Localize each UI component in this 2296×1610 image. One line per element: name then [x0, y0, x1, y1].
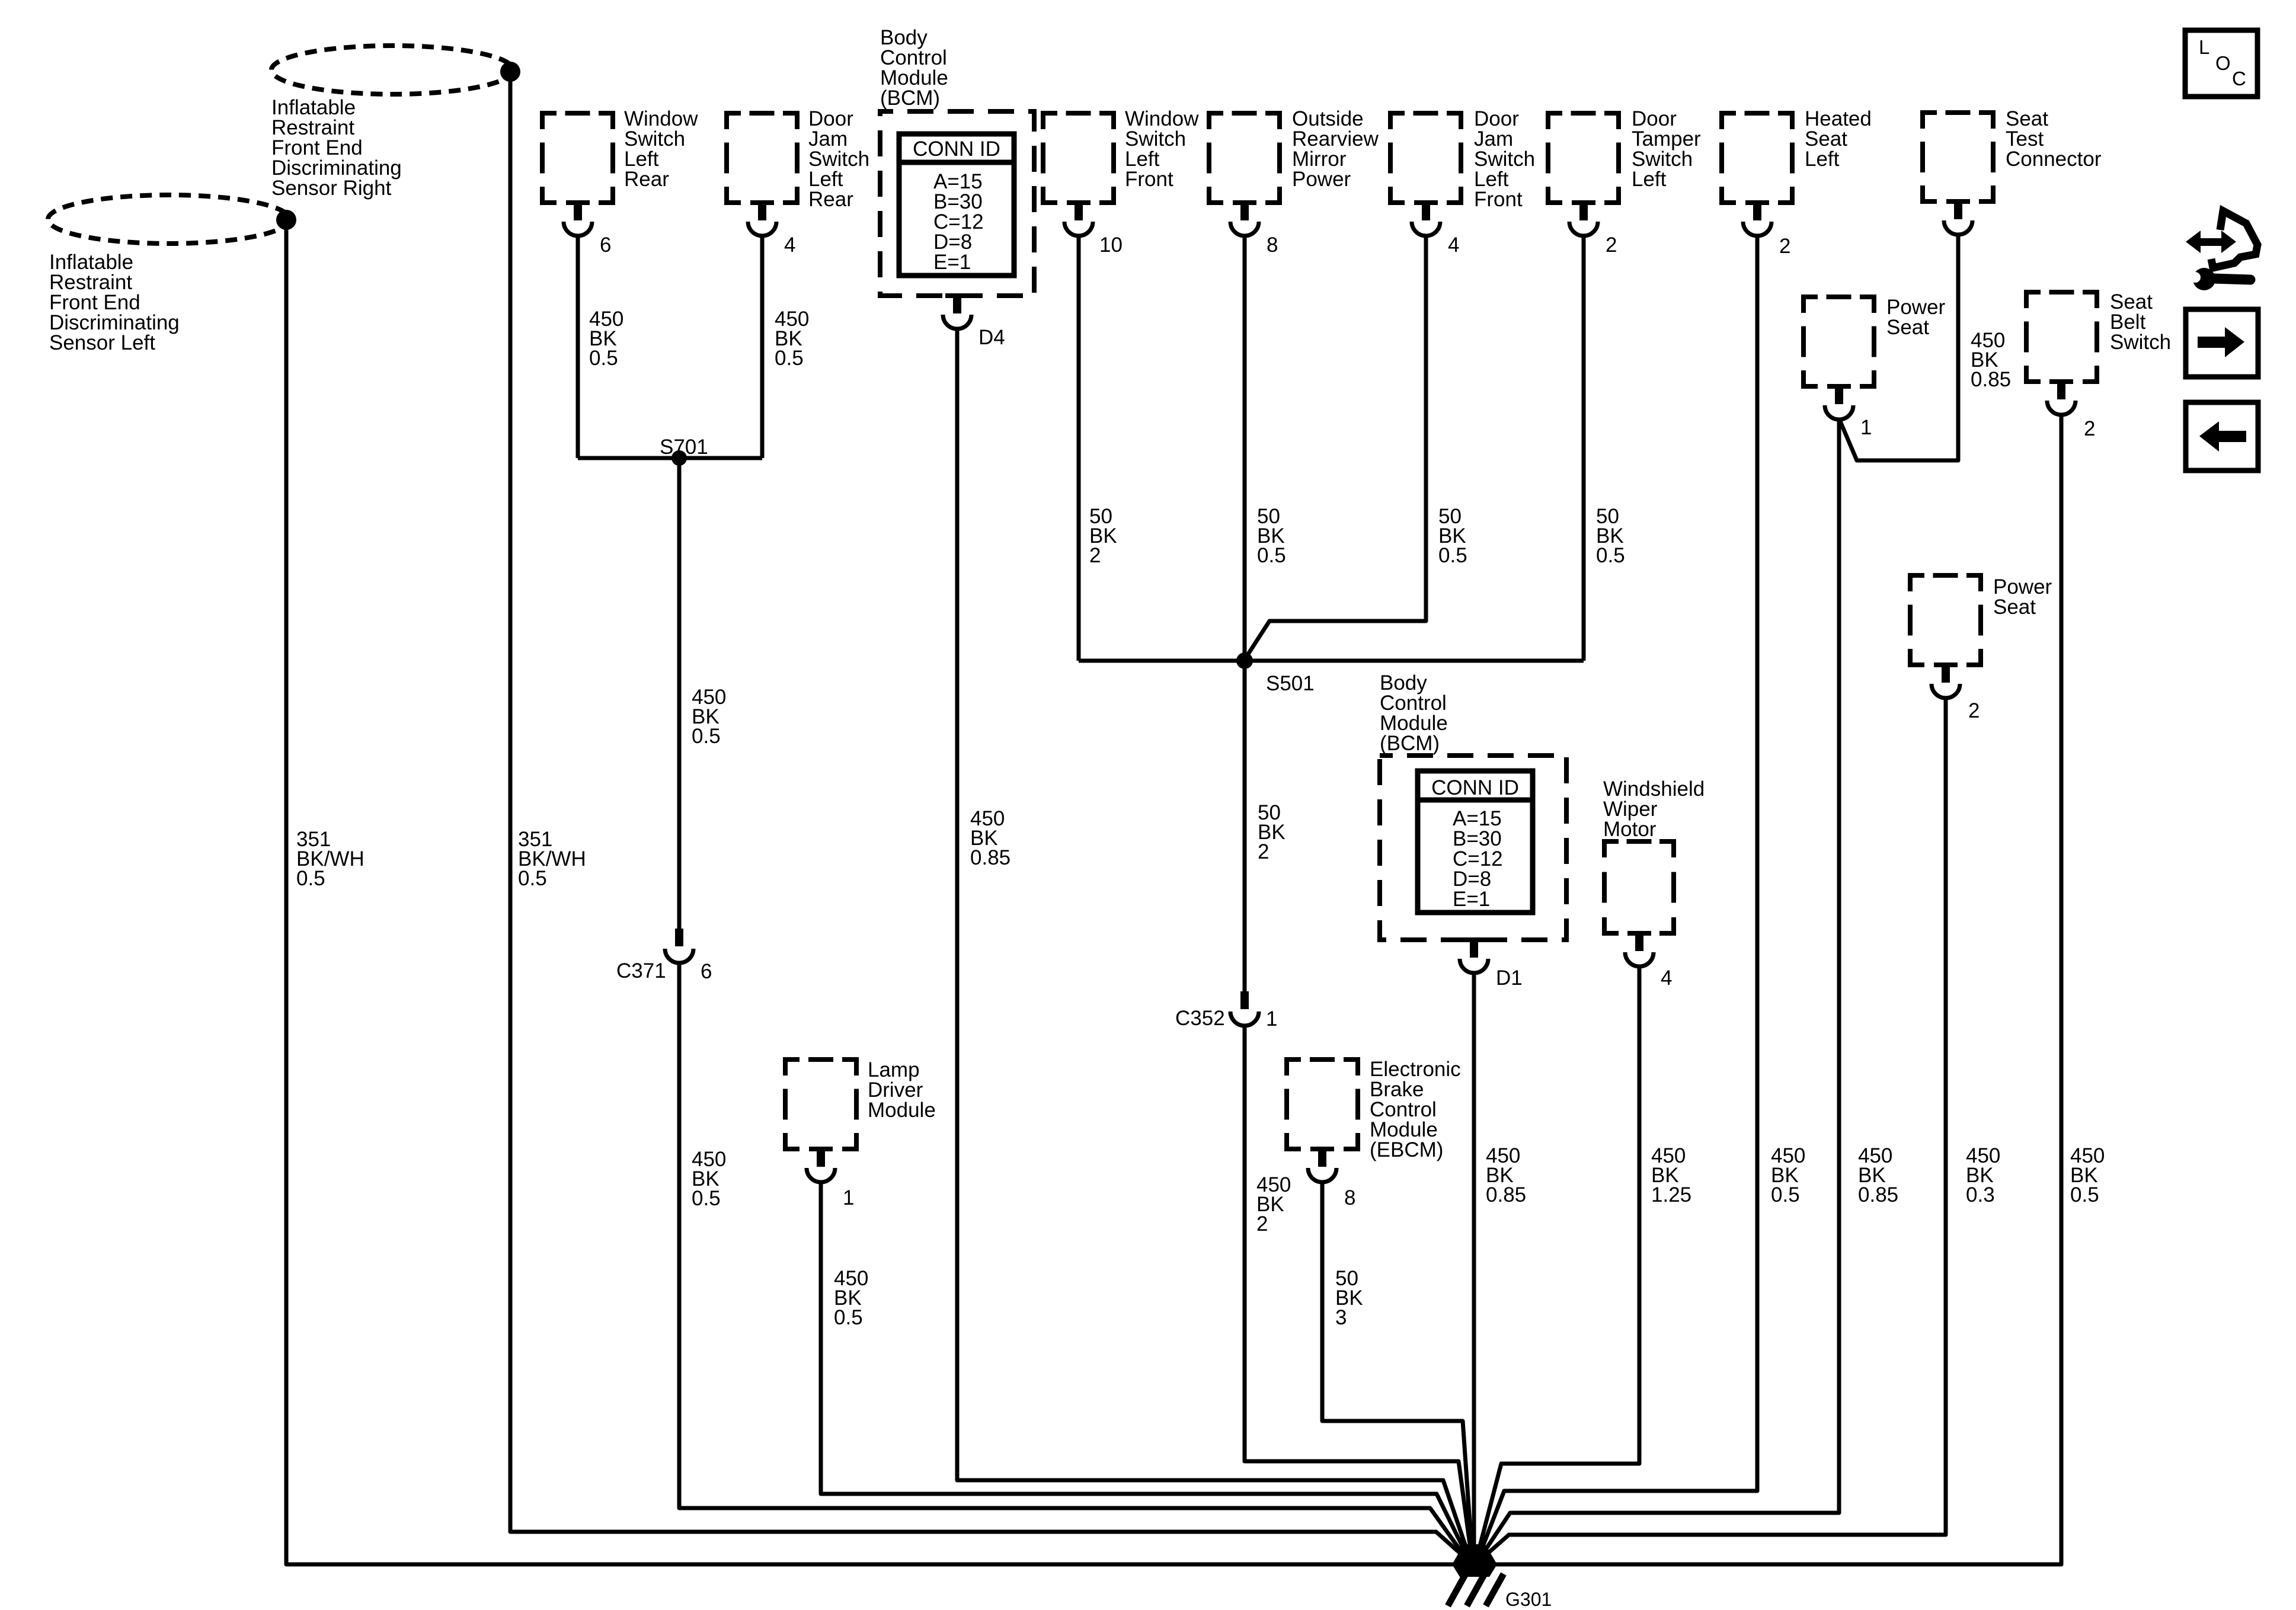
svg-text:Left: Left: [1805, 148, 1840, 171]
wire: sensor left to G301 (351 BK/WH 0.5): [286, 220, 1462, 1564]
svg-text:Seat: Seat: [1886, 316, 1929, 339]
icon: left arrow box: [2186, 402, 2258, 470]
module: Body Control Module (BCM) #2: [1380, 671, 1566, 940]
svg-text:0.5: 0.5: [518, 867, 547, 890]
connector: Lamp Driver Module: [783, 1058, 936, 1209]
svg-text:C371: C371: [616, 959, 666, 982]
svg-text:Seat: Seat: [1993, 596, 2036, 619]
inline connector C371 pin 6: [616, 929, 712, 983]
connector: Door Jam Switch Left Rear: [724, 107, 869, 257]
svg-text:0.5: 0.5: [296, 867, 325, 890]
connector: Window Switch Left Front: [1041, 107, 1199, 257]
svg-text:Motor: Motor: [1603, 818, 1657, 841]
wire label 50 BK 0.5 (door jam LF): [1438, 505, 1467, 567]
wire: sensor right to G301 (351 BK/WH 0.5): [510, 72, 1469, 1561]
wire label 450 BK 0.5 (heated seat): [1771, 1144, 1805, 1206]
svg-text:Sensor Right: Sensor Right: [271, 177, 392, 200]
wire: heated seat left pin 2 to G301 (450 BK 0.5): [1478, 235, 1757, 1558]
wire label 50 BK 0.5 (mirror): [1257, 505, 1286, 567]
svg-text:0.5: 0.5: [1596, 544, 1625, 567]
pin D1 of BCM #2: [1460, 937, 1523, 990]
svg-text:0.5: 0.5: [589, 347, 618, 370]
wire label 450 BK 0.5 (seat belt): [2070, 1144, 2105, 1206]
svg-text:E=1: E=1: [1453, 888, 1490, 911]
wire label 450 BK 0.5 (lamp driver): [834, 1267, 868, 1329]
svg-text:C: C: [2232, 68, 2246, 89]
svg-text:Front: Front: [1125, 168, 1173, 191]
inflatable restraint front end discriminating sensor right (dashed ellipse): [271, 46, 513, 200]
wire: door tamper switch left pin 2 down to S501: [1582, 235, 1586, 661]
wire: window switch left front pin 10 down to S501: [1077, 235, 1081, 661]
svg-text:0.5: 0.5: [1771, 1183, 1800, 1206]
svg-text:1: 1: [1860, 416, 1872, 439]
svg-text:Rear: Rear: [624, 168, 669, 191]
svg-text:2: 2: [1606, 233, 1617, 257]
wire: S501 horizontal bus: [1079, 659, 1584, 663]
wire label 450 BK 0.5 (S701-C371): [692, 686, 726, 748]
connector: Power Seat #2: [1908, 575, 2052, 722]
svg-text:1: 1: [1266, 1007, 1277, 1030]
inflatable restraint front end discriminating sensor left (dashed ellipse): [48, 195, 290, 354]
svg-text:Connector: Connector: [2006, 148, 2102, 171]
svg-text:D4: D4: [978, 326, 1005, 349]
wire label 450 BK 0.85 (D1): [1486, 1144, 1526, 1206]
node: sensor left splice dot: [276, 210, 296, 230]
svg-text:G301: G301: [1505, 1589, 1552, 1610]
module: Body Control Module (BCM) #1: [880, 26, 1034, 296]
wire label 50 BK 2 (S501-C352): [1258, 801, 1285, 863]
svg-text:2: 2: [1968, 699, 1980, 722]
svg-text:0.5: 0.5: [834, 1306, 863, 1329]
svg-text:(EBCM): (EBCM): [1370, 1138, 1443, 1161]
svg-text:8: 8: [1344, 1186, 1355, 1209]
wire: outside rearview mirror power pin 8 down to S501: [1243, 235, 1247, 661]
svg-text:1: 1: [843, 1186, 854, 1209]
svg-text:S501: S501: [1266, 672, 1315, 695]
wire: seat test connector down and over to power seat pin 1 (450 BK 0.85): [1840, 233, 1958, 460]
connector: Outside Rearview Mirror Power: [1207, 107, 1379, 257]
svg-text:CONN ID: CONN ID: [913, 137, 1000, 161]
svg-text:Rear: Rear: [808, 188, 853, 211]
connector: Window Switch Left Rear: [540, 107, 698, 257]
svg-text:10: 10: [1099, 233, 1123, 257]
connector: Heated Seat Left: [1719, 107, 1872, 258]
inline connector C352 pin 1: [1175, 991, 1277, 1030]
wire: power seat #2 pin 2 to G301 (450 BK 0.3): [1480, 697, 1946, 1560]
wire: S501 down to C352 (50 BK 2): [1243, 661, 1247, 991]
svg-text:(BCM): (BCM): [1380, 732, 1440, 755]
icon: vehicle hood with double arrow and wrench: [2186, 211, 2257, 290]
svg-text:CONN ID: CONN ID: [1431, 776, 1519, 799]
svg-text:2: 2: [2084, 417, 2095, 440]
svg-text:L: L: [2199, 36, 2209, 58]
wire: BCM#1 D4 down to G301 (450 BK 0.85): [957, 328, 1470, 1558]
pin D4 of BCM #1: [943, 293, 1005, 349]
wire: C352 down to G301 (450 BK 2): [1245, 1025, 1472, 1557]
wire: windshield wiper motor pin 4 to G301 (450 BK 1.25): [1477, 965, 1639, 1557]
svg-text:6: 6: [701, 960, 712, 983]
svg-text:3: 3: [1335, 1306, 1347, 1329]
icon: LOC box (top right): [2185, 30, 2257, 97]
wire label 450 BK 2 (C352-G301): [1256, 1173, 1291, 1235]
svg-text:Power: Power: [1292, 168, 1351, 191]
svg-text:0.5: 0.5: [1257, 544, 1286, 567]
wire: EBCM pin 8 to G301 (50 BK 3): [1322, 1181, 1472, 1557]
wire label 450 BK 0.5 (window sw LR): [589, 308, 623, 370]
wire: door jam switch left front pin 4 down, jog into S501: [1245, 235, 1426, 660]
svg-text:O: O: [2215, 52, 2231, 74]
svg-text:0.85: 0.85: [970, 846, 1011, 869]
svg-text:0.5: 0.5: [2070, 1183, 2099, 1206]
wire label 351 BK/WH 0.5 (sensor right): [518, 828, 586, 890]
node S701 splice: [660, 436, 708, 466]
connector: Windshield Wiper Motor: [1602, 777, 1705, 990]
svg-text:E=1: E=1: [933, 251, 971, 274]
svg-text:Front: Front: [1474, 188, 1523, 211]
svg-text:0.5: 0.5: [1438, 544, 1467, 567]
wire label 450 BK 1.25 (wiper): [1651, 1144, 1691, 1206]
wire: power seat #1 pin 1 to G301 (450 BK 0.85): [1479, 418, 1839, 1559]
svg-text:Left: Left: [1632, 168, 1667, 191]
node S501 splice: [1236, 652, 1315, 695]
svg-text:2: 2: [1779, 235, 1790, 258]
svg-text:6: 6: [600, 233, 611, 257]
svg-text:4: 4: [1661, 966, 1672, 990]
connector: Door Tamper Switch Left: [1546, 107, 1701, 257]
node: sensor right splice dot: [500, 62, 520, 82]
svg-text:Module: Module: [868, 1099, 936, 1122]
wire: S701 horizontal bus: [578, 456, 762, 460]
wire label 450 BK 0.5 (door jam LR): [775, 308, 809, 370]
svg-text:C352: C352: [1175, 1007, 1225, 1030]
svg-text:2: 2: [1089, 544, 1101, 567]
svg-text:Switch: Switch: [2110, 331, 2171, 354]
svg-text:0.85: 0.85: [1486, 1183, 1526, 1206]
svg-text:4: 4: [784, 233, 795, 257]
wire label 351 BK/WH 0.5 (sensor left): [296, 828, 364, 890]
svg-text:0.5: 0.5: [692, 1187, 721, 1210]
wire: window switch left rear pin 6 down to S701: [576, 235, 580, 458]
wire: S701 down to C371: [677, 458, 682, 929]
wire label 450 BK 0.3 (power seat 2): [1966, 1144, 2000, 1206]
svg-text:D1: D1: [1496, 966, 1523, 990]
svg-text:4: 4: [1448, 233, 1459, 257]
svg-text:(BCM): (BCM): [880, 87, 940, 110]
svg-text:2: 2: [1256, 1212, 1268, 1235]
wire: seat belt switch pin 2 to G301 (450 BK 0.5): [1491, 414, 2061, 1564]
module: Electronic Brake Control Module (EBCM): [1284, 1058, 1461, 1209]
svg-text:0.3: 0.3: [1966, 1183, 1995, 1206]
connector: Seat Belt Switch: [2024, 290, 2171, 440]
ground G301: [1448, 1544, 1552, 1610]
svg-text:0.85: 0.85: [1858, 1183, 1898, 1206]
svg-text:0.5: 0.5: [775, 347, 804, 370]
wire label 450 BK 0.85 (power seat 1): [1858, 1144, 1898, 1206]
wire label 450 BK 0.85 (seat test): [1971, 329, 2011, 391]
icon: right arrow box: [2186, 309, 2258, 377]
wire label 50 BK 0.5 (door tamper): [1596, 505, 1625, 567]
svg-text:Sensor Left: Sensor Left: [49, 331, 155, 354]
svg-text:0.85: 0.85: [1971, 368, 2011, 391]
connector: Seat Test Connector: [1920, 107, 2102, 235]
wire label 50 BK 3 (EBCM): [1335, 1267, 1363, 1329]
wire: door jam switch left rear pin 4 down to S701: [760, 235, 765, 458]
wire label 450 BK 0.5 (C371-G301): [692, 1148, 726, 1210]
connector: Power Seat #1: [1801, 296, 1946, 439]
wire label 450 BK 0.85 (D4): [970, 807, 1011, 869]
svg-text:1.25: 1.25: [1651, 1183, 1691, 1206]
wire label 50 BK 2 (window sw LF): [1089, 505, 1117, 567]
wire: C371 down to G301 (450 BK 0.5): [679, 962, 1467, 1560]
svg-text:0.5: 0.5: [692, 725, 721, 748]
svg-text:2: 2: [1258, 840, 1269, 863]
connector: Door Jam Switch Left Front: [1388, 107, 1535, 257]
svg-text:S701: S701: [660, 436, 708, 459]
wire: lamp driver module pin 1 to G301 (450 BK 0.5): [821, 1181, 1469, 1559]
wire: BCM#2 D1 down to G301 (450 BK 0.85): [1472, 972, 1476, 1557]
svg-text:8: 8: [1267, 233, 1278, 257]
